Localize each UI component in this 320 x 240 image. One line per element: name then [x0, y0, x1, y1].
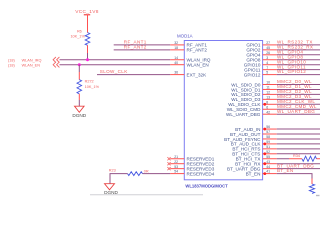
wire net WL_SDIO_D0 to sheet edge: [277, 84, 320, 86]
svg-text:22: 22: [174, 160, 178, 164]
svg-text:EXT_32K: EXT_32K: [187, 72, 208, 77]
wire net WL_SDIO_CMD to sheet edge: [277, 108, 320, 110]
resistor (BT_EN pulldown, bottom right): [309, 179, 314, 194]
wire net WL_SDIO_D2 to sheet edge: [277, 93, 320, 95]
pin 42 WL_UART_DBG (right): [226, 110, 277, 117]
pin 43 BT_HCI_RX (right): [235, 160, 277, 167]
svg-text:RF_ANT2: RF_ANT2: [124, 44, 147, 49]
ground DGND (under R23): [104, 184, 118, 195]
svg-text:WL_UART_DBG: WL_UART_DBG: [226, 112, 261, 117]
pin 55 BT_HCI_TX (right): [236, 155, 277, 162]
wire net WL_SDIO_CLK to sheet edge: [277, 103, 320, 105]
pin 41 BT_EN (right): [246, 170, 277, 177]
svg-text:WLAN_EN: WLAN_EN: [22, 63, 41, 67]
svg-text:43: 43: [266, 160, 270, 164]
resistor R272 10K_1%: [77, 80, 100, 94]
svg-text:BT_EN: BT_EN: [277, 168, 294, 173]
svg-text:R23: R23: [109, 169, 116, 173]
pin 10 WL_SDIO_D0 (right): [231, 81, 276, 88]
svg-text:40: 40: [174, 61, 178, 65]
svg-text:6: 6: [266, 105, 268, 109]
svg-text:GPIO12: GPIO12: [244, 72, 261, 77]
wire net WL_SDIO_D3 to sheet edge: [277, 98, 320, 100]
pin 22 RESERVED2 (left): [167, 160, 214, 167]
svg-text:59: 59: [266, 140, 270, 144]
svg-text:18: 18: [174, 46, 178, 50]
svg-text:58: 58: [266, 135, 270, 139]
pin 59 BT_AUD_CLK (right): [231, 140, 277, 147]
wire net WLAN_EN: [60, 64, 171, 66]
wire net BT_UART_DBG to sheet edge: [277, 168, 320, 170]
junction dot on WLAN_IRQ: [86, 58, 89, 61]
svg-text:54: 54: [174, 170, 178, 174]
svg-text:10: 10: [266, 81, 270, 85]
svg-text:WL_GPIO12: WL_GPIO12: [277, 69, 306, 74]
svg-text:10K_1%: 10K_1%: [85, 85, 100, 89]
svg-text:DGND: DGND: [104, 190, 118, 195]
svg-text:27: 27: [266, 41, 270, 45]
svg-text:(18): (18): [8, 63, 15, 67]
pin 13 WL_SDIO_D3 (right): [231, 95, 276, 102]
wire net RF_ANT2: [114, 49, 171, 51]
svg-text:36: 36: [174, 71, 178, 75]
svg-text:DGND: DGND: [72, 113, 86, 118]
svg-text:7: 7: [266, 66, 268, 70]
svg-text:52: 52: [266, 150, 270, 154]
pin 36 EXT_32K (left): [170, 71, 207, 78]
wire net GPIO11 to sheet edge: [277, 69, 320, 71]
pin 44 BT_UART_DBG (right): [227, 165, 277, 172]
wire RESERVED4 to R23: [143, 173, 171, 175]
svg-text:14: 14: [174, 56, 178, 60]
svg-text:R272: R272: [85, 80, 94, 84]
pin 52 BT_HCI_CTS (right): [232, 150, 276, 157]
pin 57 BT_AUD_OUT (right): [230, 130, 277, 137]
svg-text:MOD1A: MOD1A: [177, 33, 193, 38]
IC MOD1A module body (WL1837MODGIMOCT): [184, 41, 262, 180]
wire net GPIO2 to sheet edge: [277, 49, 320, 51]
wire net GPIO12 to sheet edge: [277, 74, 320, 76]
ground DGND (under R272): [72, 106, 86, 118]
junction dot on WLAN_EN: [78, 63, 81, 66]
wire net BT_HCI_RX to sheet edge: [277, 163, 320, 165]
svg-text:VCC_1V8: VCC_1V8: [75, 9, 98, 15]
svg-text:R34: R34: [293, 154, 300, 158]
pin 12 WL_SDIO_D2 (right): [231, 91, 276, 98]
pin 8 WL_SDIO_CLK (right): [228, 100, 276, 107]
wire net GPIO10 to sheet edge: [277, 64, 320, 66]
pin 53 RESERVED3 (left): [167, 165, 214, 172]
wire net WLAN_IRQ: [60, 59, 171, 61]
svg-text:0R: 0R: [144, 170, 149, 174]
svg-text:26: 26: [266, 51, 270, 55]
svg-text:32: 32: [174, 41, 178, 45]
wire net BT_HCI_TX to R34: [277, 158, 302, 160]
wire net BT_EN to pulldown resistor: [277, 174, 312, 179]
wire net BT_AUD_FSYNC to sheet edge: [277, 138, 320, 140]
pin 7 GPIO11 (right): [244, 66, 277, 73]
svg-text:45: 45: [266, 46, 270, 50]
off-page connector WLAN_IRQ (sheet 18): [8, 57, 59, 63]
wire WLAN_EN to R272: [78, 65, 80, 80]
resistor R34 (on BT_HCI_TX): [293, 154, 320, 162]
svg-text:SLOW_CLK: SLOW_CLK: [100, 69, 128, 74]
wire net BT_AUD_OUT to sheet edge: [277, 133, 320, 135]
wire net GPIO1 to sheet edge: [277, 44, 320, 46]
pin 21 RESERVED1 (left): [167, 155, 214, 162]
svg-text:13: 13: [266, 95, 270, 99]
wire net BT_AUD_CLK to sheet edge: [277, 143, 320, 145]
svg-text:56: 56: [266, 125, 270, 129]
pin 32 RF_ANT1 (left): [170, 41, 207, 48]
svg-text:WL_UART_DBG: WL_UART_DBG: [277, 109, 315, 114]
pin 27 GPIO1 (right): [246, 41, 276, 48]
wire net GPIO8 to sheet edge: [277, 59, 320, 61]
wire net BT_HCI_CTS to sheet edge: [277, 153, 320, 155]
svg-text:12: 12: [266, 91, 270, 95]
pin 3 GPIO8 (right): [246, 56, 276, 63]
svg-text:21: 21: [174, 155, 178, 159]
svg-text:WLAN_EN: WLAN_EN: [187, 63, 209, 68]
off-page connector WLAN_EN (sheet 18): [8, 62, 59, 67]
svg-text:55: 55: [266, 155, 270, 159]
svg-text:57: 57: [266, 130, 270, 134]
wire net WL_SDIO_D1 to sheet edge: [277, 88, 320, 90]
resistor R23 0R: [109, 169, 149, 176]
power symbol VCC_1V8: [75, 9, 98, 33]
wire R272 to DGND: [78, 94, 80, 106]
pin 14 WLAN_IRQ (left): [170, 56, 211, 63]
svg-text:RESERVED4: RESERVED4: [187, 171, 215, 176]
svg-text:WLAN_IRQ: WLAN_IRQ: [22, 58, 42, 62]
wire net GPIO4 to sheet edge: [277, 54, 320, 56]
wire R6 to WLAN_IRQ: [87, 45, 89, 59]
pin 6 WL_SDIO_CMD (right): [227, 105, 277, 112]
wire net SLOW_CLK: [97, 74, 170, 76]
wire net RF_ANT1: [114, 44, 171, 46]
svg-text:42: 42: [266, 110, 270, 114]
pin 58 BT_AUD_FSYNC (right): [224, 135, 277, 142]
svg-text:10K_1%: 10K_1%: [70, 35, 85, 39]
svg-text:53: 53: [174, 165, 178, 169]
wire net BT_HCI_RTS to sheet edge: [277, 148, 320, 150]
svg-text:11: 11: [266, 86, 270, 90]
svg-text:51: 51: [266, 145, 270, 149]
svg-text:4: 4: [266, 61, 268, 65]
wire R23 to DGND: [110, 174, 128, 184]
svg-text:BT_EN: BT_EN: [246, 171, 261, 176]
pin 4 GPIO10 (right): [244, 61, 277, 68]
svg-text:RF_ANT2: RF_ANT2: [187, 48, 208, 53]
svg-text:3: 3: [266, 56, 268, 60]
svg-text:8: 8: [266, 100, 268, 104]
wire net WL_UART_DBG to sheet edge: [277, 113, 320, 115]
pin 11 WL_SDIO_D1 (right): [231, 86, 276, 93]
svg-text:WL1837MODGIMOCT: WL1837MODGIMOCT: [185, 183, 228, 188]
pin 51 BT_HCI_RTS (right): [232, 145, 276, 152]
resistor R6 10K_1%: [70, 29, 89, 45]
sheet border bottom line: [90, 194, 320, 197]
svg-text:44: 44: [266, 165, 270, 169]
pin 40 WLAN_EN (left): [170, 61, 209, 68]
svg-text:R6: R6: [77, 29, 82, 33]
pin 5 GPIO12 (right): [244, 71, 277, 78]
pin 26 GPIO4 (right): [246, 51, 276, 58]
svg-text:41: 41: [266, 170, 270, 174]
wire net BT_AUD_IN to sheet edge: [277, 128, 320, 130]
pin 18 RF_ANT2 (left): [170, 46, 207, 53]
pin 54 RESERVED4 (left): [170, 170, 214, 177]
pin 45 GPIO2 (right): [246, 46, 276, 53]
svg-text:(18): (18): [8, 58, 15, 62]
svg-text:5: 5: [266, 71, 268, 75]
pin 56 BT_AUD_IN (right): [235, 125, 277, 132]
